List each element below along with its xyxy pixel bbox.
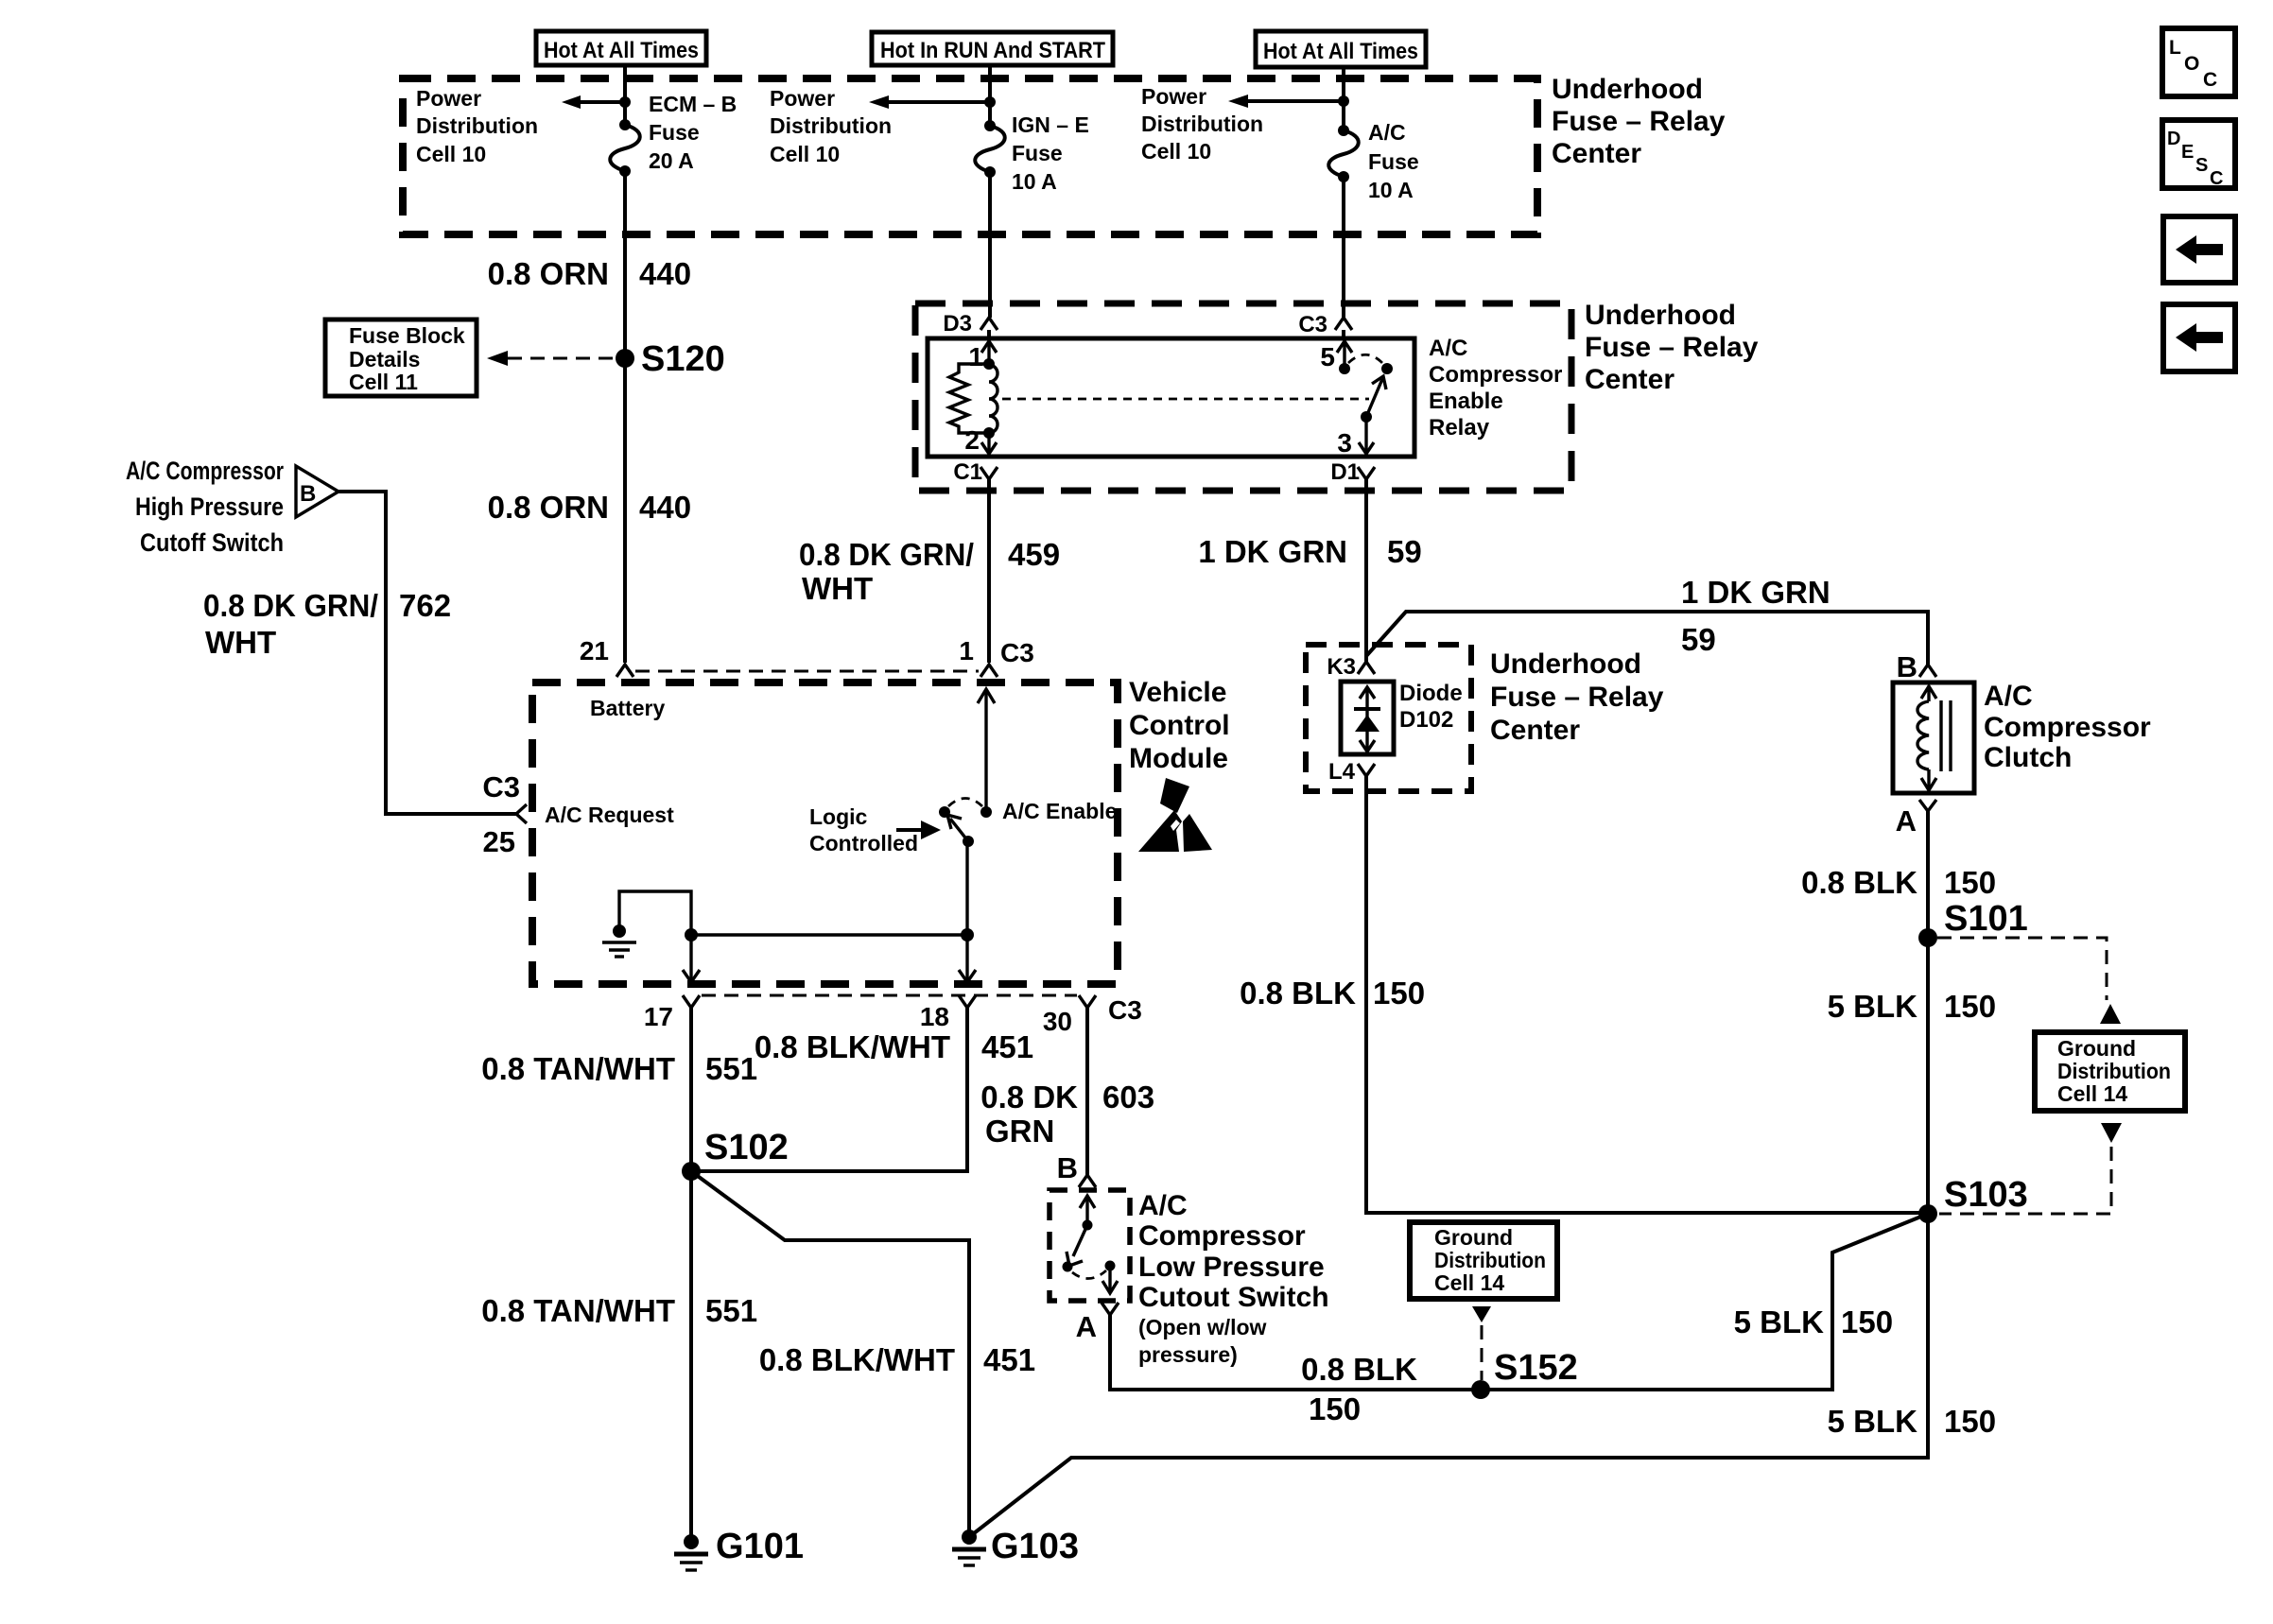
label: 5 BLK 150 (S101 to S103) (1828, 989, 1996, 1024)
svg-text:Power: Power (416, 86, 481, 111)
node S101 (1918, 899, 2028, 947)
label: 0.8 BLK 150 (clutch leg) (1801, 865, 1996, 900)
connector pin 1 (959, 636, 998, 677)
svg-text:WHT: WHT (802, 571, 873, 606)
low pressure switch blade with arrowhead (1067, 1225, 1087, 1266)
svg-text:C3: C3 (1000, 638, 1034, 667)
svg-text:S120: S120 (641, 339, 725, 379)
svg-text:5 BLK: 5 BLK (1734, 1304, 1825, 1339)
wire 451: S102 to G103 (691, 1171, 969, 1537)
svg-text:Relay: Relay (1429, 415, 1490, 441)
svg-text:Fuse: Fuse (1368, 149, 1419, 174)
label: 0.8 DK GRN/ WHT 459 (799, 537, 1060, 606)
clutch coil (1917, 686, 1936, 790)
relay coil bottom node (983, 427, 995, 439)
A/C enable switch blade with arrowhead (947, 815, 968, 841)
node: junction to power distribution arrow 3 (1338, 95, 1349, 107)
wire: A/C fuse to relay pin C3 (1342, 177, 1345, 318)
svg-text:B: B (1897, 650, 1917, 683)
node S102 (682, 1128, 789, 1181)
clutch plates (1941, 700, 1951, 771)
node: junction to power distribution arrow 2 (984, 96, 996, 108)
underhood fuse-relay center box (diode, dashed) (1306, 645, 1471, 791)
underhood fuse-relay center box (relay, dashed) (915, 303, 1571, 491)
back arrow box 1 (2163, 216, 2235, 283)
svg-text:Control: Control (1129, 710, 1230, 741)
svg-text:Compressor: Compressor (1429, 362, 1562, 388)
desc box (2162, 120, 2235, 189)
svg-text:WHT: WHT (205, 625, 276, 660)
low pressure switch right node (1105, 1261, 1116, 1271)
A/C enable dashed arc (948, 799, 982, 807)
svg-text:603: 603 (1102, 1080, 1154, 1114)
svg-text:5 BLK: 5 BLK (1828, 1404, 1918, 1439)
svg-text:O: O (2184, 53, 2199, 75)
svg-text:10 A: 10 A (1012, 169, 1057, 194)
connector pin 17 (644, 995, 700, 1031)
svg-text:Cell 10: Cell 10 (770, 142, 840, 166)
svg-text:A: A (1896, 804, 1917, 838)
label: A/C Compressor Clutch (1984, 681, 2151, 773)
arrow to power distribution (left) 2 (869, 95, 990, 109)
connector pin 18 (920, 995, 976, 1031)
svg-text:A/C Request: A/C Request (545, 803, 674, 827)
svg-text:A/C: A/C (1368, 120, 1406, 145)
svg-text:Fuse – Relay: Fuse – Relay (1585, 332, 1759, 363)
svg-text:B: B (300, 481, 316, 507)
svg-text:Distribution: Distribution (416, 113, 538, 138)
svg-text:Details: Details (349, 347, 420, 371)
svg-text:Power: Power (770, 86, 835, 111)
label: 0.8 DK GRN 603 (980, 1080, 1154, 1149)
node: junction to power distribution arrow 1 (619, 96, 631, 108)
svg-text:451: 451 (983, 1342, 1035, 1377)
connector C1 (953, 459, 998, 485)
svg-text:20 A: 20 A (649, 148, 694, 173)
svg-text:GRN: GRN (985, 1114, 1054, 1149)
label: 0.8 BLK/WHT 451 (lower) (759, 1342, 1035, 1377)
svg-text:S102: S102 (704, 1128, 789, 1167)
fuse block details cell 11 box (325, 320, 477, 396)
arrow to power distribution (left) 1 (562, 95, 625, 109)
label C3 / 25 (A/C request connector) (482, 770, 520, 858)
svg-text:25: 25 (483, 825, 515, 858)
wire: internal ground to junctions (619, 891, 691, 935)
wire: hot feed into ECM-B fuse (623, 65, 627, 125)
svg-text:Fuse: Fuse (1012, 141, 1063, 165)
svg-text:Hot In RUN And START: Hot In RUN And START (880, 38, 1105, 63)
svg-text:762: 762 (399, 588, 451, 623)
ground distribution cell 14 box (lower) (1410, 1222, 1557, 1299)
label: 0.8 TAN/WHT 551 (lower) (481, 1293, 757, 1328)
svg-text:Ground: Ground (1434, 1225, 1513, 1250)
ground G103 (952, 1527, 1079, 1566)
svg-text:150: 150 (1841, 1304, 1893, 1339)
svg-text:Cutout Switch: Cutout Switch (1138, 1282, 1329, 1313)
svg-text:451: 451 (981, 1029, 1033, 1064)
connector B (clutch) (1897, 650, 1936, 683)
wire 762: cutoff switch to VCM A/C request (338, 492, 516, 814)
svg-text:Underhood: Underhood (1552, 74, 1703, 105)
svg-text:Cell 14: Cell 14 (2057, 1081, 2127, 1106)
svg-text:5: 5 (1320, 342, 1335, 371)
label: Logic Controlled (809, 804, 918, 855)
svg-text:Hot At All Times: Hot At All Times (544, 38, 699, 63)
svg-text:Compressor: Compressor (1138, 1220, 1306, 1252)
svg-text:0.8 BLK/WHT: 0.8 BLK/WHT (755, 1029, 950, 1064)
diode D102 symbol (1354, 687, 1380, 752)
svg-text:Battery: Battery (590, 696, 665, 720)
wire stubs into relay box (987, 330, 991, 338)
connector D1 (1330, 459, 1375, 485)
node S152 (1471, 1348, 1578, 1399)
svg-text:Cell 10: Cell 10 (416, 142, 486, 166)
label: Power Distribution Cell 10 (left) (416, 86, 538, 166)
connector C3 (relay top) (1298, 312, 1352, 337)
label: Power Distribution Cell 10 (middle) (770, 86, 892, 166)
svg-text:Low Pressure: Low Pressure (1138, 1252, 1325, 1283)
relay coil-to-switch dashed link (1002, 398, 1369, 401)
wire 150: diode L4 down and right to S103 (1366, 776, 1928, 1213)
svg-text:150: 150 (1373, 976, 1425, 1011)
connector pin 30 (1043, 995, 1096, 1036)
dashed link: S101 to ground distribution box (1937, 938, 2121, 1024)
svg-text:459: 459 (1008, 537, 1060, 572)
relay K1: A/C compressor enable relay box (928, 338, 1414, 457)
svg-text:Ground: Ground (2057, 1036, 2136, 1061)
relay switch left pivot (1339, 363, 1350, 374)
svg-text:551: 551 (705, 1051, 757, 1086)
svg-text:Hot At All Times: Hot At All Times (1263, 39, 1418, 64)
A/C enable right pivot (980, 806, 992, 818)
dashed connector link (bottom C3) (702, 994, 1077, 997)
relay switch dashed arc (1348, 354, 1383, 364)
connector A (clutch) (1896, 800, 1936, 838)
svg-text:Fuse: Fuse (649, 120, 700, 145)
svg-text:Center: Center (1490, 715, 1580, 746)
back arrow box 2 (2163, 304, 2235, 371)
underhood fuse-relay center box (top, dashed) (403, 78, 1537, 234)
wire 459: relay C1 to VCM pin 1 (987, 479, 991, 663)
svg-text:5 BLK: 5 BLK (1828, 989, 1918, 1024)
svg-text:1: 1 (959, 636, 974, 665)
svg-text:3: 3 (1337, 428, 1352, 458)
svg-text:C3: C3 (1108, 995, 1142, 1025)
svg-text:Vehicle: Vehicle (1129, 677, 1226, 708)
svg-text:S152: S152 (1494, 1348, 1578, 1388)
svg-text:Controlled: Controlled (809, 831, 918, 855)
svg-text:59: 59 (1681, 622, 1716, 657)
svg-text:Enable: Enable (1429, 389, 1503, 414)
svg-text:D: D (2167, 129, 2180, 149)
svg-text:K3: K3 (1327, 654, 1356, 680)
wire 150: clutch A to S101 to S103 (1926, 811, 1930, 1214)
arrow into pin 17 (683, 935, 700, 982)
relay switch blade with arrowhead (1366, 376, 1386, 417)
A/C compressor low pressure cutout switch box (dashed) (1050, 1190, 1130, 1301)
wire 59: relay D1 down to K3 (1364, 479, 1368, 662)
svg-text:0.8 DK GRN/: 0.8 DK GRN/ (799, 537, 974, 572)
connector B (low pressure switch) (1057, 1151, 1096, 1187)
VCM internal ground symbol (602, 924, 636, 957)
svg-text:A/C: A/C (1984, 681, 2033, 712)
wire: hot feed into A/C fuse (1342, 67, 1345, 130)
connector K3 (1327, 654, 1375, 680)
svg-text:IGN – E: IGN – E (1012, 112, 1089, 137)
relay coil top node (983, 358, 995, 370)
svg-text:Cell 10: Cell 10 (1141, 139, 1211, 164)
low pressure switch dashed arc (1072, 1270, 1106, 1279)
low pressure switch left node (1063, 1262, 1073, 1272)
svg-text:0.8 BLK: 0.8 BLK (1301, 1352, 1417, 1387)
relay coil (989, 365, 998, 433)
svg-text:Logic: Logic (809, 804, 868, 829)
svg-text:551: 551 (705, 1293, 757, 1328)
internal junction node (pin 18 side) (961, 928, 974, 942)
svg-text:10 A: 10 A (1368, 178, 1414, 202)
A/C enable blade lower node (963, 836, 974, 847)
A/C compressor clutch box (1893, 682, 1974, 793)
diode D102 box (1341, 682, 1394, 754)
svg-text:High Pressure: High Pressure (135, 492, 284, 521)
relay pin 5 arrow (1320, 341, 1352, 371)
label: 0.8 ORN 440 (lower) (488, 490, 691, 525)
label: 1 DK GRN 59 (horizontal run) (1681, 575, 1831, 657)
svg-text:Fuse – Relay: Fuse – Relay (1552, 106, 1726, 137)
hot label box 3 (1256, 31, 1426, 67)
low pressure switch exit arrow (1102, 1266, 1118, 1293)
svg-text:0.8 BLK: 0.8 BLK (1801, 865, 1917, 900)
label: 0.8 DK GRN/ WHT 762 (203, 588, 451, 660)
svg-text:A/C: A/C (1138, 1190, 1188, 1221)
svg-text:1 DK GRN: 1 DK GRN (1198, 534, 1347, 569)
dashed link: ground distribution box to S103 (1939, 1123, 2122, 1214)
svg-text:B: B (1057, 1151, 1078, 1184)
svg-text:D1: D1 (1330, 459, 1360, 485)
svg-text:S: S (2195, 155, 2208, 176)
svg-text:440: 440 (639, 490, 691, 525)
wire 551: VCM pin 17 to G101 (689, 1008, 693, 1542)
svg-text:Distribution: Distribution (1434, 1248, 1546, 1272)
node S103 (1918, 1175, 2028, 1223)
relay switch lower node (1361, 411, 1372, 423)
label: 0.8 BLK/WHT 451 (upper) (755, 1029, 1033, 1064)
svg-text:Diode: Diode (1399, 681, 1463, 706)
svg-text:1 DK GRN: 1 DK GRN (1681, 575, 1831, 610)
svg-text:Underhood: Underhood (1585, 300, 1736, 331)
internal ground bus wire (691, 933, 967, 936)
fuse ECM-B 20A (610, 119, 640, 177)
svg-text:Distribution: Distribution (2057, 1059, 2171, 1083)
svg-text:Cell 14: Cell 14 (1434, 1270, 1504, 1295)
svg-text:Center: Center (1585, 364, 1674, 395)
arrow into pin 18 (959, 935, 976, 982)
svg-text:150: 150 (1309, 1391, 1361, 1426)
svg-text:ECM – B: ECM – B (649, 92, 737, 116)
svg-text:Compressor: Compressor (1984, 712, 2151, 743)
svg-text:L4: L4 (1328, 759, 1356, 785)
svg-text:C3: C3 (482, 770, 520, 803)
svg-text:E: E (2181, 142, 2194, 163)
wire: blade node down to pin 18 junction (965, 841, 968, 935)
fuse IGN-E 10A (975, 120, 1005, 178)
connector D3 (943, 311, 998, 337)
svg-text:2: 2 (964, 425, 980, 455)
label: ECM-B Fuse 20 A (649, 92, 737, 173)
logic controlled arrow (896, 821, 941, 839)
label: A/C Fuse 10 A (1368, 120, 1419, 202)
dashed connector link (top C3) (635, 670, 979, 673)
relay pin 1 arrow (968, 341, 997, 371)
svg-text:D102: D102 (1399, 707, 1453, 733)
connector A (low pressure switch) (1076, 1303, 1119, 1343)
label: 5 BLK 150 (bottom) (1828, 1404, 1996, 1439)
wire 440: fuse to S120 to VCM pin 21 (623, 171, 627, 663)
connector pin 21 (580, 636, 633, 677)
label: 5 BLK 150 (riser to S103) (1734, 1304, 1893, 1339)
svg-text:(Open w/low: (Open w/low (1138, 1315, 1267, 1339)
label: 0.8 TAN/WHT 551 (upper) (481, 1051, 757, 1086)
svg-text:21: 21 (580, 636, 609, 665)
svg-text:0.8 BLK/WHT: 0.8 BLK/WHT (759, 1342, 955, 1377)
relay pin 2 arrow (964, 425, 997, 455)
svg-text:0.8 TAN/WHT: 0.8 TAN/WHT (481, 1051, 675, 1086)
svg-text:Module: Module (1129, 743, 1228, 774)
svg-text:0.8 ORN: 0.8 ORN (488, 256, 609, 291)
label: Power Distribution Cell 10 (right) (1141, 84, 1263, 164)
svg-text:A/C Enable: A/C Enable (1002, 799, 1117, 823)
ground distribution cell 14 box (right) (2035, 1032, 2185, 1111)
svg-text:A: A (1076, 1310, 1097, 1343)
label: 0.8 BLK 150 (diode leg) (1240, 976, 1425, 1011)
loc box (2162, 28, 2235, 96)
hot label box 1 (536, 31, 706, 65)
svg-text:pressure): pressure) (1138, 1342, 1238, 1367)
svg-text:440: 440 (639, 256, 691, 291)
svg-text:Power: Power (1141, 84, 1206, 109)
svg-text:Cutoff Switch: Cutoff Switch (140, 528, 284, 557)
svg-text:C3: C3 (1298, 312, 1327, 337)
connector 25: A/C request (516, 804, 527, 823)
label: Underhood Fuse-Relay Center (top) (1552, 74, 1726, 169)
label: Underhood Fuse-Relay Center (relay) (1585, 300, 1759, 395)
svg-text:G101: G101 (716, 1527, 804, 1566)
svg-text:0.8 BLK: 0.8 BLK (1240, 976, 1356, 1011)
connector L4 (1328, 759, 1375, 785)
svg-text:S101: S101 (1944, 899, 2028, 939)
svg-text:17: 17 (644, 1002, 673, 1031)
label: A/C Compressor High Pressure Cutoff Switch (126, 457, 284, 557)
A/C enable left pivot (939, 806, 950, 818)
svg-text:59: 59 (1387, 534, 1422, 569)
svg-text:Clutch: Clutch (1984, 742, 2072, 773)
label: 0.8 ORN 440 (upper) (488, 256, 691, 291)
label: IGN-E Fuse 10 A (1012, 112, 1089, 194)
wire: hot feed into IGN-E fuse (988, 65, 992, 126)
svg-text:1: 1 (968, 342, 983, 371)
dashed arrow from S120 to fuse block details (487, 351, 613, 366)
svg-text:C: C (2203, 69, 2217, 91)
label: 0.8 BLK 150 (at S152) (1301, 1352, 1417, 1426)
svg-text:Cell 11: Cell 11 (349, 370, 418, 394)
svg-text:L: L (2169, 37, 2181, 59)
A/C enable arrow into pin 1 (978, 689, 995, 812)
svg-text:Distribution: Distribution (770, 113, 892, 138)
relay resistor (949, 364, 989, 433)
label: A/C Compressor Low Pressure Cutout Switch (1138, 1190, 1329, 1367)
high pressure cutoff switch connector B (triangle) (296, 466, 338, 517)
svg-text:C1: C1 (953, 459, 982, 485)
svg-text:C: C (2210, 168, 2223, 189)
wire 150: low pressure switch A to S152 to S103 riser (1110, 1214, 1928, 1390)
svg-text:Fuse Block: Fuse Block (349, 323, 465, 348)
hot label box 2 (872, 32, 1113, 65)
label: Vehicle Control Module (1129, 677, 1230, 774)
wire 603: VCM pin 30 to low pressure switch B (1085, 1008, 1089, 1175)
label: 1 DK GRN 59 (vertical run) (1198, 534, 1421, 569)
svg-text:Distribution: Distribution (1141, 112, 1263, 136)
label: Diode D102 (1399, 681, 1463, 733)
ESD sensitivity symbol (1138, 778, 1212, 852)
svg-text:150: 150 (1944, 1404, 1996, 1439)
fuse A/C 10A (1328, 125, 1359, 182)
label: Underhood Fuse-Relay Center (diode) (1490, 648, 1664, 746)
svg-text:0.8 DK: 0.8 DK (980, 1080, 1078, 1114)
relay pin 3 arrow (1337, 417, 1374, 458)
low pressure switch top node (1083, 1220, 1093, 1231)
svg-text:A/C Compressor: A/C Compressor (126, 457, 284, 485)
wire: IGN-E fuse to relay pin D3 (988, 172, 992, 318)
svg-text:G103: G103 (991, 1527, 1079, 1566)
wire 150: S103 down to G103 run (969, 1214, 1928, 1537)
vehicle control module box (dashed) (532, 682, 1118, 984)
wire: branch from K3 wire to clutch (1 DK GRN 59) (1366, 612, 1928, 665)
svg-text:0.8 DK GRN/: 0.8 DK GRN/ (203, 588, 378, 623)
relay switch right pivot (1381, 363, 1393, 374)
svg-text:D3: D3 (943, 311, 972, 337)
low pressure switch top contact arrow (1080, 1196, 1095, 1225)
svg-text:30: 30 (1043, 1007, 1072, 1036)
arrow to power distribution (left) 3 (1228, 95, 1344, 108)
svg-text:0.8 ORN: 0.8 ORN (488, 490, 609, 525)
ground G101 (674, 1527, 804, 1570)
label: A/C Compressor Enable Relay (1429, 336, 1562, 441)
svg-text:150: 150 (1944, 865, 1996, 900)
svg-text:150: 150 (1944, 989, 1996, 1024)
svg-text:Fuse – Relay: Fuse – Relay (1490, 682, 1664, 713)
internal junction node (pin 17 side) (685, 928, 698, 942)
wire 451: VCM pin 18 down to S102 (691, 1008, 967, 1171)
svg-text:Center: Center (1552, 138, 1641, 169)
node S120 (616, 339, 725, 379)
svg-text:Underhood: Underhood (1490, 648, 1641, 680)
svg-text:A/C: A/C (1429, 336, 1467, 361)
svg-text:S103: S103 (1944, 1175, 2028, 1215)
svg-text:0.8 TAN/WHT: 0.8 TAN/WHT (481, 1293, 675, 1328)
svg-text:18: 18 (920, 1002, 949, 1031)
dashed link: ground distribution box to S152 (1472, 1306, 1491, 1380)
